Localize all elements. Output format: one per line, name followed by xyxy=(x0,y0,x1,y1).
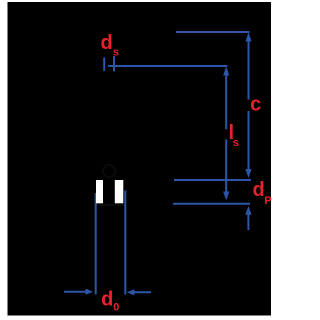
svg-text:d: d xyxy=(253,179,265,201)
right lead edge extension line xyxy=(124,191,126,295)
lead bottom extension line 2 xyxy=(173,203,250,205)
tick A (d_s left tick) xyxy=(103,58,105,72)
right lead (white) xyxy=(115,180,124,203)
d_s horizontal dimension line xyxy=(108,65,227,67)
d_0 right arrowhead (points left) xyxy=(127,289,135,295)
l_s bottom arrowhead (down) xyxy=(223,192,229,201)
svg-text:0: 0 xyxy=(113,302,119,314)
d_0 left arrow line xyxy=(64,291,87,293)
d_P up arrowhead xyxy=(245,206,251,215)
c bottom arrowhead (down) xyxy=(245,169,251,178)
top extension line (seating plane) xyxy=(176,31,250,33)
svg-text:d: d xyxy=(101,32,113,54)
svg-text:c: c xyxy=(250,94,261,116)
l_s dimension line (upper segment) xyxy=(225,72,227,129)
l_s top arrowhead (up) xyxy=(223,67,229,76)
wire faint circle xyxy=(103,165,115,177)
lead top extension line 1 xyxy=(174,179,251,181)
c dimension line (upper segment) xyxy=(248,38,250,100)
d_P lower arrow stem xyxy=(247,212,249,230)
c top arrowhead (up) xyxy=(245,33,251,42)
svg-text:s: s xyxy=(233,137,239,149)
faint line under leads xyxy=(96,204,125,206)
d_0 left arrowhead (points right) xyxy=(86,289,94,295)
d_0 right arrow line xyxy=(133,291,151,293)
left lead (white) xyxy=(96,180,103,203)
l_s dimension line (lower segment) xyxy=(225,140,227,195)
svg-text:s: s xyxy=(113,46,119,58)
left lead edge extension line xyxy=(95,193,97,295)
tick B (d_s right tick) xyxy=(113,56,115,72)
svg-text:d: d xyxy=(101,289,113,311)
c dimension line (lower segment) xyxy=(248,111,250,172)
svg-text:P: P xyxy=(264,195,271,207)
